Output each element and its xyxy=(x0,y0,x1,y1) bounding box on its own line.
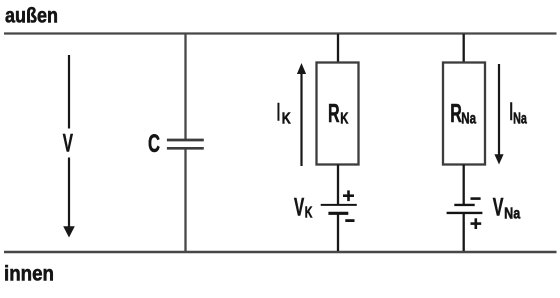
label V_K xyxy=(294,194,313,222)
wire: bottom rail (innen node) xyxy=(4,251,557,253)
svg-text:Na: Na xyxy=(504,206,520,223)
voltage arrow V (membrane potential, pointing down) xyxy=(63,55,75,238)
current arrow I_Na (pointing down) xyxy=(494,64,503,165)
svg-text:R: R xyxy=(450,98,462,128)
label I_K xyxy=(277,99,291,128)
svg-text:Na: Na xyxy=(513,111,527,128)
svg-text:außen: außen xyxy=(5,5,58,28)
battery V_Na (short - plate on top, long + plate below) xyxy=(447,205,483,213)
svg-text:I: I xyxy=(277,99,280,127)
battery V_K (long + plate on top, short - plate below) xyxy=(321,205,357,213)
svg-text:R: R xyxy=(328,98,340,128)
wire: R_K to battery V_K xyxy=(337,165,339,205)
svg-text:Na: Na xyxy=(461,110,476,127)
svg-text:V: V xyxy=(294,194,304,222)
wire: top rail (außen node) xyxy=(4,32,557,34)
label R_K xyxy=(328,98,349,128)
label R_Na xyxy=(450,98,476,128)
wire: capacitor to bottom rail xyxy=(184,150,186,252)
current arrow I_K (pointing up) xyxy=(297,63,306,166)
svg-text:V: V xyxy=(493,194,504,222)
label I_Na xyxy=(510,98,527,128)
svg-text:K: K xyxy=(282,111,291,128)
label + (V_Na positive terminal) xyxy=(471,218,482,229)
resistor R_K (box) xyxy=(317,63,359,165)
label - (V_Na negative terminal) xyxy=(471,197,481,200)
resistor R_Na (box) xyxy=(443,63,485,165)
wire: top rail to resistor R_K xyxy=(337,34,339,62)
label + (V_K positive terminal) xyxy=(343,190,354,201)
svg-text:K: K xyxy=(340,110,349,127)
label - (V_K negative terminal) xyxy=(345,219,354,222)
capacitor C (two plates) xyxy=(167,140,204,148)
label V_Na xyxy=(493,194,520,223)
svg-text:C: C xyxy=(148,130,160,158)
svg-text:K: K xyxy=(305,204,313,221)
wire: top rail to capacitor xyxy=(184,34,186,139)
svg-text:innen: innen xyxy=(4,263,54,286)
wire: battery V_K to bottom rail xyxy=(337,215,339,252)
wire: top rail to resistor R_Na xyxy=(463,34,465,62)
wire: R_Na to battery V_Na xyxy=(463,165,465,205)
svg-text:V: V xyxy=(63,130,73,158)
wire: battery V_Na to bottom rail xyxy=(463,214,465,251)
